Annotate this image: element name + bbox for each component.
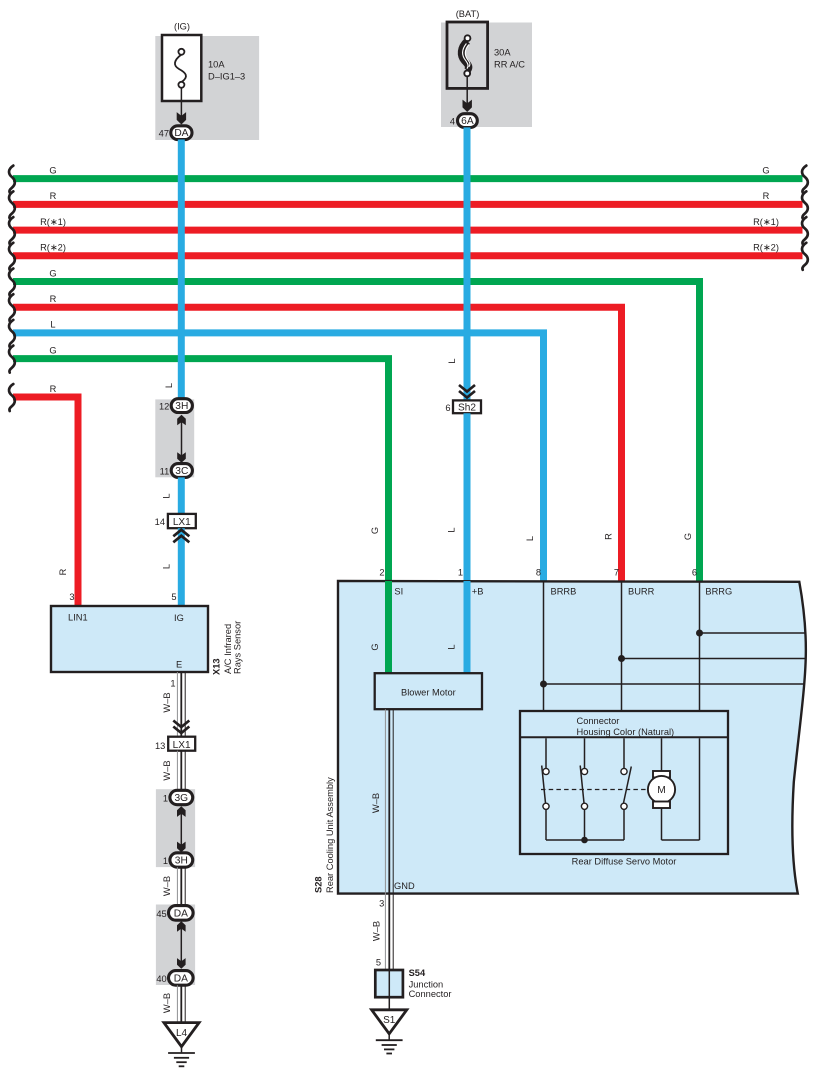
arrow up to 3H — [177, 415, 186, 426]
connector 3C pin 11 — [160, 464, 193, 478]
internal wire BURR branch — [622, 658, 806, 660]
pin 5 sensor IG — [171, 592, 176, 602]
svg-text:S28: S28 — [314, 876, 324, 893]
svg-text:1: 1 — [163, 856, 168, 866]
connector 3G pin 1 — [163, 790, 193, 804]
svg-text:X13: X13 — [212, 658, 222, 675]
wire L LX1 to sensor IG — [178, 528, 185, 606]
svg-text:L: L — [164, 383, 174, 388]
pin 8 BRRB — [536, 568, 577, 597]
wire fuse1 to connector DA — [180, 88, 182, 122]
svg-text:LX1: LX1 — [173, 517, 191, 528]
label (IG) — [174, 22, 190, 32]
break symbol right bus 3 — [802, 217, 808, 244]
connector 3H pin 12 — [159, 399, 192, 413]
label R above pin 7 — [604, 533, 614, 540]
svg-text:R: R — [763, 191, 770, 201]
internal wire DA to DA — [180, 925, 182, 965]
svg-text:Connector: Connector — [577, 716, 620, 726]
svg-text:DA: DA — [174, 908, 188, 919]
bus wire G to blower SI — [13, 345, 389, 581]
ground S1 — [372, 1010, 407, 1054]
svg-text:30A: 30A — [494, 48, 511, 58]
svg-text:L: L — [162, 493, 172, 498]
svg-text:R(∗2): R(∗2) — [40, 243, 66, 253]
servo bottom bus right — [662, 839, 700, 841]
label (BAT) — [456, 9, 480, 19]
svg-text:3H: 3H — [175, 401, 188, 412]
servo switch 2 — [580, 738, 587, 840]
junction node BRRG — [696, 630, 703, 637]
svg-text:10A: 10A — [208, 60, 225, 70]
label L inside box — [447, 644, 457, 649]
label W-B gnd — [371, 921, 381, 941]
rear diffuse servo motor box — [520, 711, 728, 854]
svg-text:D–IG1–3: D–IG1–3 — [208, 72, 245, 82]
svg-text:G: G — [49, 165, 56, 175]
svg-text:Sh2: Sh2 — [458, 402, 476, 413]
svg-text:R: R — [58, 568, 68, 575]
svg-text:7: 7 — [614, 568, 619, 578]
label G above pin 6 — [683, 533, 693, 540]
svg-text:3: 3 — [69, 592, 74, 602]
svg-text:G: G — [370, 643, 380, 650]
break symbol left bus 7 — [9, 320, 15, 347]
svg-text:Connector: Connector — [409, 989, 452, 999]
servo motor M — [648, 738, 675, 840]
label W-B blower — [371, 793, 381, 813]
break symbol left bus 1 — [9, 166, 15, 193]
svg-text:R: R — [50, 191, 57, 201]
connector DA pin 40 — [156, 971, 193, 986]
wire fuse2 to connector 6A — [466, 76, 468, 109]
rear cooling unit assembly S28 box — [338, 581, 806, 894]
bus wire R (full width) — [13, 191, 803, 204]
connector housing header — [520, 716, 728, 738]
ground L4 — [164, 1023, 199, 1067]
svg-text:S1: S1 — [383, 1015, 396, 1026]
svg-text:DA: DA — [174, 973, 188, 984]
svg-text:Housing Color (Natural): Housing Color (Natural) — [577, 727, 675, 737]
svg-text:Rear Cooling Unit Assembly: Rear Cooling Unit Assembly — [325, 777, 335, 893]
label L above pin 1 — [447, 527, 457, 532]
svg-text:Rays Sensor: Rays Sensor — [233, 621, 243, 674]
junction block gray DA-DA — [156, 905, 195, 986]
break symbol right bus 1 — [802, 166, 808, 193]
svg-text:W–B: W–B — [162, 993, 172, 1013]
internal wire BRRG branch — [700, 632, 807, 634]
svg-text:W–B: W–B — [371, 921, 381, 941]
bus wire G to BRRG — [13, 268, 700, 581]
svg-text:LX1: LX1 — [173, 740, 191, 751]
connector 6A pin 4 — [450, 114, 477, 128]
svg-text:6: 6 — [692, 568, 697, 578]
wire W-B 3H to DA45 — [177, 867, 185, 905]
label W-B 3 — [162, 876, 172, 896]
pin 3 sensor LIN1 — [69, 592, 74, 602]
pin 6 BRRG — [692, 568, 732, 597]
svg-text:4: 4 — [450, 117, 455, 127]
break symbol left bus 9 — [9, 384, 15, 411]
label L above pin 8 — [525, 536, 535, 541]
blower motor box — [375, 673, 482, 709]
wire L from Sh2 to S28 — [464, 413, 471, 582]
wire L from DA down to 3H — [178, 140, 185, 403]
arrow down to DA40 — [177, 958, 186, 969]
svg-text:3G: 3G — [175, 793, 189, 804]
svg-text:6: 6 — [445, 403, 450, 413]
svg-text:47: 47 — [159, 129, 169, 139]
servo bottom bus left — [546, 839, 624, 841]
arrow shield into LX1 13 — [173, 721, 189, 734]
servo switch 1 — [542, 738, 549, 840]
bus wire R(*1) (full width) — [13, 217, 803, 230]
svg-text:W–B: W–B — [162, 692, 172, 712]
wire L 3C to LX1 — [178, 477, 185, 514]
connector LX1 pin 13 — [155, 737, 195, 751]
wire W-B LX1 to 3G — [177, 751, 185, 791]
fuse block gray background (IG) — [155, 36, 259, 140]
svg-text:L: L — [447, 644, 457, 649]
svg-text:3H: 3H — [175, 856, 188, 867]
junction connector Sh2 pin 6 — [445, 400, 481, 413]
svg-text:M: M — [657, 785, 666, 796]
break symbol left bus 8 — [9, 346, 15, 373]
svg-text:L: L — [447, 527, 457, 532]
svg-text:BURR: BURR — [628, 587, 655, 597]
svg-text:L4: L4 — [176, 1028, 188, 1039]
svg-text:Blower Motor: Blower Motor — [401, 687, 456, 697]
wire L inside to blower — [464, 581, 471, 674]
servo dashed link — [541, 789, 648, 791]
wire L from 6A down to Sh2 — [464, 127, 471, 401]
pin 3 GND — [379, 898, 384, 908]
wire W-B DA40 to ground — [177, 985, 185, 1022]
svg-text:SI: SI — [394, 587, 403, 597]
break symbol right bus 4 — [802, 243, 808, 270]
internal wire BRRG — [699, 581, 701, 711]
svg-text:G: G — [49, 268, 56, 278]
bus wire G (full width) — [13, 165, 803, 178]
pin 7 BURR — [614, 568, 655, 597]
junction node servo — [581, 837, 588, 844]
svg-text:G: G — [49, 345, 56, 355]
label G inside box — [370, 643, 380, 650]
arrow shield below LX1 — [173, 530, 189, 543]
svg-text:A/C Infrared: A/C Infrared — [223, 624, 233, 674]
label G above pin 2 — [370, 527, 380, 534]
internal wire BRRB — [543, 581, 545, 711]
bus wire R to BURR — [13, 294, 622, 581]
junction node BRRB — [540, 681, 547, 688]
pin 1 sensor E — [170, 679, 175, 689]
wire W-B blower to GND — [385, 709, 415, 893]
servo switch 3 — [621, 738, 631, 840]
svg-text:G: G — [762, 165, 769, 175]
label L above sensor — [162, 564, 172, 569]
wire S54 to S1 — [388, 997, 390, 1010]
svg-text:LIN1: LIN1 — [68, 613, 88, 623]
svg-text:S54: S54 — [409, 968, 426, 978]
svg-text:13: 13 — [155, 741, 165, 751]
svg-text:1: 1 — [170, 679, 175, 689]
bus wire R(*2) (full width) — [13, 243, 803, 256]
label L above 3H — [164, 383, 174, 388]
svg-text:Rear Diffuse Servo Motor: Rear Diffuse Servo Motor — [572, 856, 677, 866]
svg-text:1: 1 — [458, 568, 463, 578]
label W-B 2 — [162, 760, 172, 780]
svg-text:BRRG: BRRG — [705, 587, 732, 597]
label L above Sh2 — [447, 358, 457, 363]
pin 1 +B — [458, 568, 484, 597]
connector LX1 pin 14 — [155, 514, 196, 528]
servo right wire — [699, 738, 701, 840]
connector DA pin 45 — [156, 906, 193, 921]
svg-text:5: 5 — [376, 958, 381, 968]
svg-text:+B: +B — [472, 587, 484, 597]
svg-text:L: L — [162, 564, 172, 569]
internal wire 3H to 3C — [181, 418, 183, 459]
svg-text:E: E — [176, 660, 182, 670]
svg-text:G: G — [370, 527, 380, 534]
label R above sensor — [58, 568, 68, 575]
arrow into DA — [177, 112, 186, 124]
svg-text:8: 8 — [536, 568, 541, 578]
fuse 10A D-IG1-3 — [162, 35, 245, 101]
bus wire L to BRRB — [13, 320, 544, 581]
svg-text:(BAT): (BAT) — [456, 9, 480, 19]
internal wire BRRB branch — [544, 683, 805, 685]
svg-text:45: 45 — [156, 909, 166, 919]
svg-text:R(∗2): R(∗2) — [753, 243, 779, 253]
junction block gray 3G-3H — [156, 789, 195, 867]
svg-text:2: 2 — [379, 568, 384, 578]
fuse 30A RR A/C — [447, 22, 525, 88]
arrow shield into Sh2 — [459, 385, 475, 398]
svg-text:W–B: W–B — [371, 793, 381, 813]
svg-text:3: 3 — [379, 898, 384, 908]
svg-text:L: L — [50, 320, 55, 330]
wire W-B GND to S54 — [385, 894, 393, 970]
fuse block gray background (BAT) — [441, 23, 532, 128]
break symbol left bus 6 — [9, 294, 15, 321]
break symbol left bus 3 — [9, 217, 15, 244]
A/C infrared rays sensor X13 box — [51, 606, 208, 672]
caption rear diffuse servo motor — [572, 856, 677, 866]
svg-text:R: R — [604, 533, 614, 540]
label S28 Rear Cooling Unit Assembly — [314, 777, 336, 893]
arrow up to 3G — [177, 806, 186, 817]
internal wire 3G to 3H — [180, 810, 182, 849]
svg-text:R(∗1): R(∗1) — [40, 217, 66, 227]
arrow up to DA45 — [177, 921, 186, 932]
svg-text:R: R — [50, 294, 57, 304]
svg-text:BRRB: BRRB — [551, 587, 577, 597]
wire G inside to blower — [385, 581, 392, 674]
svg-text:G: G — [683, 533, 693, 540]
svg-text:W–B: W–B — [162, 760, 172, 780]
junction node BURR — [618, 655, 625, 662]
svg-text:(IG): (IG) — [174, 22, 190, 32]
svg-text:RR A/C: RR A/C — [494, 60, 525, 70]
internal wire BURR — [621, 581, 623, 711]
arrow down to 3C — [177, 452, 186, 463]
svg-text:5: 5 — [171, 592, 176, 602]
bus wire R to sensor LIN1 — [13, 384, 78, 606]
svg-text:40: 40 — [156, 974, 166, 984]
svg-text:12: 12 — [159, 402, 169, 412]
junction block gray 3H-3C — [155, 399, 194, 477]
label X13 A/C Infrared Rays Sensor — [212, 621, 243, 675]
break symbol right bus 2 — [802, 191, 808, 218]
label W-B 4 — [162, 993, 172, 1013]
connector 3H pin 1 lower — [163, 853, 193, 867]
wire W-B sensor E to LX1 — [177, 672, 185, 737]
svg-text:GND: GND — [394, 881, 415, 891]
svg-text:L: L — [525, 536, 535, 541]
svg-text:IG: IG — [174, 613, 184, 623]
svg-text:L: L — [447, 358, 457, 363]
junction connector S54 — [375, 968, 451, 999]
svg-text:14: 14 — [155, 517, 165, 527]
label W-B 1 — [162, 692, 172, 712]
connector DA pin 47 — [159, 126, 192, 140]
svg-text:W–B: W–B — [162, 876, 172, 896]
arrow into 6A — [463, 100, 472, 112]
svg-text:DA: DA — [174, 128, 188, 139]
arrow down to 3H lower — [177, 842, 186, 853]
break symbol left bus 2 — [9, 191, 15, 218]
svg-text:R(∗1): R(∗1) — [753, 217, 779, 227]
svg-text:11: 11 — [160, 466, 170, 476]
svg-text:6A: 6A — [461, 116, 474, 127]
label L above LX1 — [162, 493, 172, 498]
pin 2 SI — [379, 568, 403, 597]
svg-text:1: 1 — [163, 793, 168, 803]
pin 5 S54 — [376, 958, 381, 968]
svg-text:3C: 3C — [175, 466, 188, 477]
break symbol left bus 5 — [9, 269, 15, 296]
break symbol left bus 4 — [9, 243, 15, 270]
svg-text:R: R — [50, 384, 57, 394]
